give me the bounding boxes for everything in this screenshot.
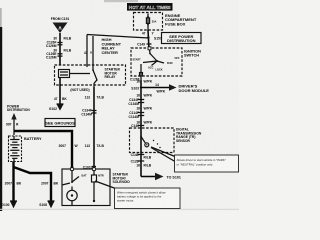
svg-text:HOT AT ALL TIMES: HOT AT ALL TIMES: [129, 5, 171, 10]
